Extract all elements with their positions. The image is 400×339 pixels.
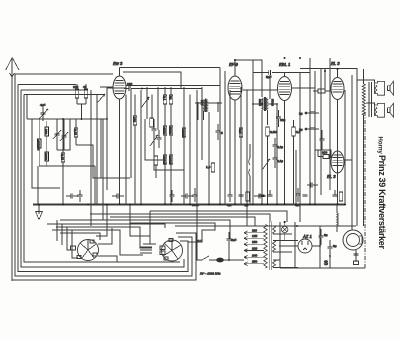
svg-text:8μ: 8μ: [333, 244, 337, 248]
wire bb3: [110, 217, 255, 226]
resistor R9: [169, 87, 173, 126]
wire grid rail c: [243, 89, 277, 91]
wire rail2: [123, 72, 181, 88]
svg-text:40: 40: [83, 85, 87, 89]
wire left nested loop 3: [18, 85, 188, 272]
wire bb10: [60, 233, 100, 240]
resistor R12 pair3: [163, 155, 167, 204]
resistor R16 150: [133, 95, 137, 205]
wire s1 out: [98, 228, 112, 244]
power transformer T1: [264, 222, 298, 271]
resistor R24: [354, 261, 359, 265]
wire r45: [77, 103, 86, 105]
svg-text:110: 110: [252, 229, 257, 233]
tube V2 EF9: [228, 60, 242, 204]
wire 357 down: [356, 80, 358, 226]
svg-text:0,1μ: 0,1μ: [277, 145, 283, 149]
svg-text:30000: 30000: [169, 156, 173, 165]
svg-text:2μ: 2μ: [299, 128, 303, 132]
resistor R4: [75, 84, 79, 104]
wire top rail: [120, 67, 221, 69]
resistor R7: [61, 119, 65, 204]
wire bb6: [175, 225, 345, 227]
svg-text:0,3M: 0,3M: [270, 130, 277, 134]
wire bb9: [52, 230, 143, 255]
wire right columns: [309, 58, 311, 204]
wire left nested loop 5: [24, 95, 180, 263]
svg-text:10μ: 10μ: [280, 118, 285, 122]
resistor R6 0.15: [74, 119, 78, 145]
resistor R8 pair: [163, 87, 167, 126]
trimmer T1: [53, 119, 61, 150]
svg-text:5μF: 5μF: [266, 75, 272, 79]
wire left inner vert b: [32, 119, 60, 188]
wire x325: [324, 69, 326, 93]
wire bb8: [56, 227, 152, 248]
fuse F1: [215, 258, 244, 262]
svg-text:Horny: Horny: [376, 137, 382, 155]
svg-text:0,1: 0,1: [163, 96, 167, 101]
pot arrow P1: [141, 97, 149, 108]
wire top loop 3: [21, 89, 88, 91]
wire V5 couple: [295, 150, 297, 204]
wire bb5: [130, 223, 215, 242]
resistor R21 grid stopper: [313, 89, 331, 93]
wire trim bottom: [57, 119, 70, 150]
wire mid verticals: [125, 95, 127, 205]
capacitor C15: [227, 232, 232, 260]
tube V3 EBL1: [278, 72, 292, 204]
svg-text:150: 150: [133, 117, 137, 122]
svg-text:0,1: 0,1: [227, 203, 232, 207]
IF transformer L1: [253, 97, 277, 111]
transformer taps arrows: [244, 231, 264, 266]
node dots top: [234, 57, 339, 72]
svg-text:EL 3: EL 3: [327, 174, 336, 179]
svg-text:240: 240: [252, 253, 257, 257]
capacitor Cgrid: [269, 70, 271, 75]
svg-text:0,5: 0,5: [239, 129, 243, 134]
wire c34: [145, 119, 165, 160]
svg-text:5000: 5000: [192, 203, 199, 207]
svg-text:150: 150: [252, 240, 257, 244]
svg-text:AZ 1: AZ 1: [302, 234, 312, 239]
capacitor C4: [157, 130, 162, 148]
resistor R18: [239, 120, 243, 145]
capacitor C12: [112, 194, 124, 199]
node L2a: [197, 102, 199, 104]
resistor R3 3000: [45, 142, 49, 166]
pot arrow P3: [262, 159, 270, 170]
switch contact S3: [249, 144, 250, 204]
svg-text:250: 250: [252, 260, 257, 264]
electrolytic C17: [328, 240, 333, 256]
mains switch S4: [196, 256, 215, 260]
choke R23: [337, 204, 338, 232]
wire bb1: [150, 211, 287, 222]
wire s2 loops: [143, 243, 156, 245]
wire field drops: [355, 250, 357, 259]
svg-text:3000: 3000: [44, 153, 48, 160]
svg-text:220: 220: [252, 247, 257, 251]
resistor R2 400000: [38, 119, 42, 160]
title vertical: [376, 137, 387, 250]
wire grid rail b: [126, 85, 220, 87]
wire V3 grid rail: [253, 71, 269, 73]
capacitor C3: [152, 119, 157, 140]
wire bb4: [60, 220, 230, 239]
resistor R25: [150, 118, 154, 127]
svg-text:5000: 5000: [271, 99, 275, 106]
svg-text:0,15: 0,15: [74, 129, 78, 135]
capacitor C2: [124, 86, 137, 91]
svg-text:100: 100: [322, 151, 327, 155]
svg-text:100: 100: [127, 82, 132, 86]
resistor R13: [169, 155, 173, 204]
svg-text:5000: 5000: [258, 99, 262, 106]
resistor R17: [182, 120, 186, 145]
wire grid feed: [15, 73, 113, 75]
wire R cluster bottom: [39, 160, 95, 166]
capacitor C8 row: [305, 112, 319, 114]
svg-text:30000: 30000: [163, 156, 167, 165]
wire V5 plate lead: [344, 159, 352, 161]
capacitor C5: [276, 110, 281, 127]
resistor R1 300: [45, 121, 49, 142]
capacitor C8b row: [305, 128, 319, 130]
resistor R5: [84, 84, 88, 104]
wire top loop 4: [24, 94, 105, 96]
wire 300 drop: [299, 72, 301, 222]
rectifier AZ1: [279, 239, 320, 253]
wire s1 out2: [98, 256, 117, 262]
svg-text:0,15: 0,15: [61, 154, 65, 160]
svg-text:125: 125: [252, 234, 257, 238]
wire left inner vert c: [37, 166, 39, 204]
capacitor C14: [254, 194, 266, 199]
capacitor C13: [181, 194, 193, 199]
capacitor C11: [66, 194, 78, 199]
capacitor C6: [273, 138, 278, 155]
svg-text:50: 50: [169, 96, 173, 100]
svg-text:60 V: 60 V: [196, 239, 203, 243]
svg-text:0,1μ: 0,1μ: [277, 159, 283, 163]
wire center column: [219, 68, 221, 205]
output transformer core: [362, 69, 371, 226]
wire bottom right: [280, 267, 365, 269]
svg-text:400000: 400000: [37, 140, 41, 151]
pot arrow P2: [150, 135, 158, 146]
resistor R10 pair2: [163, 126, 167, 155]
pot arrow P0: [97, 94, 105, 103]
node dots various: [38, 59, 346, 261]
wire left nested loop 4: [21, 90, 184, 267]
svg-text:10000: 10000: [182, 129, 186, 138]
speaker SP1: [375, 81, 394, 95]
svg-text:5: 5: [221, 131, 223, 135]
electrolytic C16: [319, 229, 324, 245]
svg-text:Ew 3: Ew 3: [113, 61, 123, 66]
wire speakers: [357, 80, 375, 83]
capacitor CL2: [216, 124, 221, 140]
lamp LP1: [282, 222, 288, 241]
svg-text:S: S: [324, 261, 328, 267]
wire left inner vert a: [26, 95, 28, 120]
field coil big circle: [343, 230, 363, 250]
wire drops bottom: [96, 204, 107, 236]
svg-text:EF 9: EF 9: [229, 62, 238, 67]
wire left nested loop 1: [12, 233, 196, 280]
IF transformer L2: [195, 99, 222, 112]
svg-text:4000: 4000: [163, 127, 167, 134]
ground main: [36, 205, 43, 220]
grid stopper V5: [318, 150, 332, 159]
wire mesh left verticals: [90, 90, 92, 226]
antenna: [6, 58, 19, 282]
svg-text:8μ: 8μ: [324, 233, 328, 237]
wire top loop 2: [18, 84, 76, 86]
capacitor C10: [307, 183, 318, 188]
wire bb7: [47, 224, 165, 228]
resistor R20: [292, 120, 296, 204]
wire if drops: [261, 110, 263, 204]
rotary switch S2: [160, 239, 183, 262]
resistor R19: [266, 127, 270, 204]
resistor R26: [154, 156, 158, 178]
resistor R11: [169, 126, 173, 155]
capacitor C1 var: [39, 107, 48, 121]
svg-text:100: 100: [73, 85, 78, 89]
capacitor C7: [273, 155, 278, 168]
wire right border: [364, 112, 366, 268]
wire V2 anode: [235, 60, 262, 97]
rotary switch S1: [71, 240, 99, 261]
wire grid V1: [100, 86, 113, 88]
svg-text:5000: 5000: [169, 127, 173, 134]
wire grid rail d: [292, 87, 315, 89]
svg-text:300: 300: [44, 129, 48, 134]
svg-text:5nF: 5nF: [231, 238, 236, 242]
svg-text:Prinz 39 Kraftverstärker: Prinz 39 Kraftverstärker: [377, 155, 387, 249]
capacitor C9: [320, 130, 325, 150]
row of small parts above bus: [78, 188, 343, 202]
node L2b: [217, 102, 219, 104]
tube V4 EL3 top: [331, 69, 344, 205]
capacitor C18: [354, 254, 359, 262]
wire L2 drops: [197, 103, 199, 120]
tube V1 Ew3: [113, 68, 126, 205]
svg-text:EL 3: EL 3: [331, 61, 340, 66]
wire left nested loop 2: [15, 74, 192, 276]
trimmer T2: [60, 119, 68, 150]
wire bb2: [90, 214, 270, 222]
tube V5 EL3 lower: [331, 140, 344, 204]
svg-text:1,5: 1,5: [206, 165, 211, 169]
wire left mid rail: [27, 88, 126, 119]
wire V3 drop: [269, 75, 271, 99]
resistor R27: [211, 163, 215, 172]
svg-text:4μF: 4μF: [40, 103, 46, 107]
svg-text:2V ~ 1261 kHz: 2V ~ 1261 kHz: [199, 272, 221, 276]
bus thick: [33, 204, 345, 206]
wire EL3 rail: [300, 69, 357, 81]
speaker SP2: [375, 103, 394, 117]
svg-text:2μ: 2μ: [299, 112, 303, 116]
svg-text:EBL 1: EBL 1: [279, 62, 290, 67]
